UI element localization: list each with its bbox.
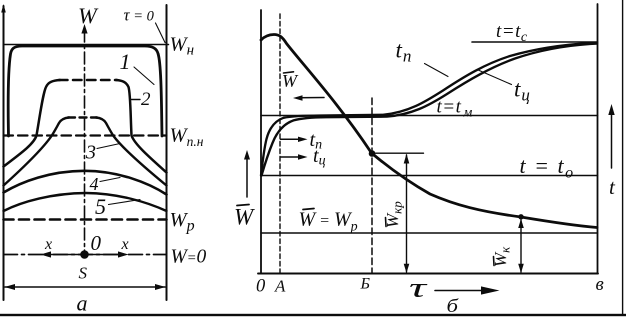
svg-text:t = tо: t = tо xyxy=(520,153,575,182)
svg-text:W: W xyxy=(282,71,299,91)
b panel bottom axis xyxy=(258,273,598,275)
svg-text:W: W xyxy=(78,3,99,28)
Wpn dashed level line xyxy=(4,134,167,136)
curve 3 dashed top xyxy=(68,116,97,118)
svg-text:3: 3 xyxy=(85,142,96,164)
label W (on curve) with macron xyxy=(282,71,299,91)
svg-text:t: t xyxy=(609,175,616,199)
svg-text:Б: Б xyxy=(360,276,371,293)
label Wk rotated xyxy=(491,246,513,267)
pointer 3 to curve 3 xyxy=(97,144,120,149)
curve 1 xyxy=(8,46,162,136)
svg-text:2: 2 xyxy=(141,89,151,110)
svg-text:4: 4 xyxy=(90,174,99,194)
dot at B on W curve xyxy=(369,150,376,157)
svg-text:S: S xyxy=(79,264,88,283)
svg-text:τ: τ xyxy=(409,273,428,303)
pointer 5 to curve 5 xyxy=(109,200,141,205)
svg-text:t=tм: t=tм xyxy=(437,97,473,121)
svg-text:5: 5 xyxy=(95,194,106,219)
dot on W curve at Wk xyxy=(518,214,523,219)
W axis centerline xyxy=(81,24,87,252)
arrow to tp xyxy=(281,137,308,142)
svg-text:t=tс: t=tс xyxy=(496,21,528,45)
svg-text:х: х xyxy=(121,236,129,253)
tc curve xyxy=(262,44,598,176)
pointer 4 to curve 4 xyxy=(100,178,120,182)
x arrow left xyxy=(41,251,85,257)
svg-text:W = Wр: W = Wр xyxy=(299,209,358,235)
tp curve xyxy=(261,43,597,176)
pointer 1 to curve 1 xyxy=(134,67,154,85)
bottom rule xyxy=(0,314,626,316)
t=to line xyxy=(261,175,598,177)
Wr dashed level line xyxy=(4,218,167,221)
curve 3 left shoulder and side xyxy=(4,118,70,186)
svg-text:W: W xyxy=(234,205,255,230)
x arrow right xyxy=(85,251,129,257)
svg-text:τ = 0: τ = 0 xyxy=(124,6,155,25)
svg-text:1: 1 xyxy=(120,49,131,74)
svg-text:а: а xyxy=(77,291,88,316)
b panel left axis xyxy=(260,10,262,274)
svg-text:б: б xyxy=(447,296,460,317)
curve 2 left shoulder and side xyxy=(4,80,61,167)
label Wkr rotated xyxy=(383,201,405,228)
b panel right axis xyxy=(597,4,599,274)
up arrow left of b panel xyxy=(244,150,250,197)
svg-text:tц: tц xyxy=(514,77,530,105)
pointer tp to curve xyxy=(425,64,449,77)
t axis arrow right xyxy=(608,104,614,168)
Wkr dimension arrow xyxy=(404,154,410,273)
B dashed vertical xyxy=(371,98,373,273)
svg-text:в: в xyxy=(596,274,604,295)
curve 2 right shoulder and side xyxy=(116,80,167,173)
svg-text:А: А xyxy=(274,277,286,296)
right page rule xyxy=(622,0,624,315)
dash pointer to curve 2 xyxy=(132,99,141,101)
t=tm line xyxy=(261,115,598,117)
svg-text:Wн: Wн xyxy=(170,34,195,59)
svg-text:0: 0 xyxy=(91,231,102,255)
svg-text:Wп.н: Wп.н xyxy=(170,125,204,150)
t=tc line xyxy=(472,41,598,43)
W=0 dash-dot line xyxy=(4,254,167,256)
W=Wr line xyxy=(261,232,598,234)
curve 3 right shoulder and side xyxy=(96,118,167,186)
svg-text:0: 0 xyxy=(256,277,266,297)
Wkr reference line xyxy=(373,152,424,154)
Wk dimension arrow xyxy=(518,219,524,273)
arrow to tc xyxy=(281,154,308,159)
S dimension arrow xyxy=(5,284,166,290)
W drying curve xyxy=(261,35,597,228)
curve 2 dashed top xyxy=(59,79,117,82)
pointer tau=0 to Wn line xyxy=(156,23,166,43)
left arrow under W label xyxy=(293,95,324,100)
curve 4 xyxy=(4,171,167,195)
A dashed vertical xyxy=(279,14,281,273)
pointer tc to curve xyxy=(477,70,512,85)
svg-text:Wр: Wр xyxy=(170,209,195,235)
curve 5 xyxy=(4,193,167,211)
left wall of slab xyxy=(1,4,6,300)
right wall of slab xyxy=(166,5,168,300)
svg-text:tп: tп xyxy=(396,38,412,66)
svg-text:х: х xyxy=(44,236,52,253)
tau direction arrow xyxy=(435,286,500,294)
center dot xyxy=(80,250,89,259)
label W=Wr xyxy=(299,209,358,235)
Wn level line xyxy=(4,44,169,46)
svg-text:W=0: W=0 xyxy=(171,247,207,268)
W axis label left of b panel xyxy=(234,205,255,230)
